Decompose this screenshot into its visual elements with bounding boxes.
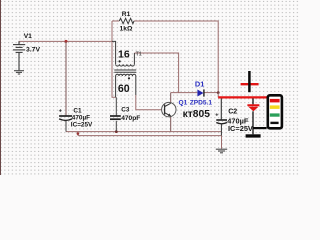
bargraph indicator (268, 95, 282, 128)
svg-text:R1: R1 (122, 11, 131, 18)
svg-text:470pF: 470pF (121, 115, 140, 122)
led red bar (247, 104, 259, 106)
wire collector node (171, 92, 198, 94)
battery V1 (13, 41, 25, 70)
ground output (216, 149, 227, 153)
wire collector drop (170, 93, 172, 104)
wire battery top (19, 40, 112, 42)
led red triangle (248, 107, 258, 112)
wire red output rail (218, 96, 267, 98)
wire R1 left (112, 20, 119, 22)
svg-text:кт805: кт805 (183, 109, 211, 120)
svg-text:V1: V1 (24, 33, 32, 40)
svg-text:C1: C1 (73, 107, 82, 114)
transformer T1 core (114, 69, 136, 71)
wire D1 cathode to node (204, 92, 218, 94)
capacitor C2 lead top (220, 99, 222, 120)
svg-text:T1: T1 (136, 52, 142, 58)
transistor Q1 collector lead (165, 103, 171, 106)
svg-text:IC=25V: IC=25V (71, 122, 93, 129)
capacitor C2 lead bottom (220, 124, 222, 136)
node junction C3 rail (115, 130, 118, 133)
svg-text:+: + (59, 109, 62, 115)
svg-text:IC=25V: IC=25V (228, 124, 253, 133)
wire R1 right (134, 21, 218, 93)
node junction V+ C1 (65, 40, 68, 43)
bargraph bar yellow (270, 105, 280, 109)
bargraph bar black (270, 122, 278, 124)
capacitor C3 plates (110, 115, 121, 117)
bargraph bar green (270, 113, 280, 116)
node junction D1 R1 (217, 91, 220, 94)
transistor Q1 base lead (163, 109, 166, 111)
svg-text:C3: C3 (121, 107, 130, 114)
wire rail to ground (221, 136, 223, 149)
capacitor C1 lead (65, 41, 67, 116)
transistor Q1 base bar (164, 105, 166, 115)
svg-text:Q1: Q1 (179, 99, 188, 106)
svg-text:1kΩ: 1kΩ (120, 26, 133, 33)
bargraph bar red (270, 99, 280, 103)
wire rail jog (77, 132, 79, 136)
svg-text:60: 60 (118, 83, 130, 95)
diode D1 (197, 90, 203, 97)
transformer T1 primary coil (116, 64, 135, 66)
transistor Q1 emitter lead (165, 113, 171, 116)
transistor Q1 circle (162, 102, 176, 116)
transistor Q1 emitter arrow (168, 113, 171, 116)
wire V+ vertical (112, 21, 116, 97)
wire secondary top (134, 53, 178, 93)
svg-text:3.7V: 3.7V (26, 47, 40, 54)
node junction rail jog (77, 132, 80, 135)
svg-text:16: 16 (118, 49, 130, 61)
transformer T1 primary terminal left (112, 41, 116, 64)
transformer T1 primary terminal right (133, 53, 135, 64)
capacitor C3 lead top (115, 97, 117, 116)
transformer T1 secondary coil (116, 74, 136, 76)
ground battery (14, 71, 24, 74)
wire base (136, 95, 164, 110)
wire upper rail (66, 131, 222, 133)
diode D1 cathode bar (203, 89, 205, 96)
capacitor C1 plates (59, 115, 72, 117)
resistor R1 (119, 18, 134, 23)
capacitor C2 plates (216, 119, 227, 121)
svg-text:+: + (215, 112, 218, 118)
capacitor C3 lead bottom (115, 121, 117, 132)
svg-text:C2: C2 (228, 108, 237, 115)
capacitor C1 lead bottom (65, 121, 67, 132)
transformer T1 secondary terminal left (115, 76, 117, 97)
output minus marker (246, 134, 261, 137)
transformer T1 secondary terminal right (135, 76, 137, 95)
transformer T1 secondary phase dot (128, 77, 130, 79)
output plus marker (241, 83, 259, 85)
border line left (0, 0, 2, 175)
wire lower rail (78, 135, 222, 137)
led lead top (252, 98, 254, 104)
wire emitter drop (170, 116, 172, 131)
svg-text:D1: D1 (195, 79, 204, 88)
wire node to red rail (217, 93, 219, 98)
led lead bottom (252, 111, 254, 134)
bargraph lead (253, 127, 267, 129)
svg-text:ZPD5.1: ZPD5.1 (190, 99, 213, 106)
transformer T1 primary phase dot (119, 60, 121, 62)
